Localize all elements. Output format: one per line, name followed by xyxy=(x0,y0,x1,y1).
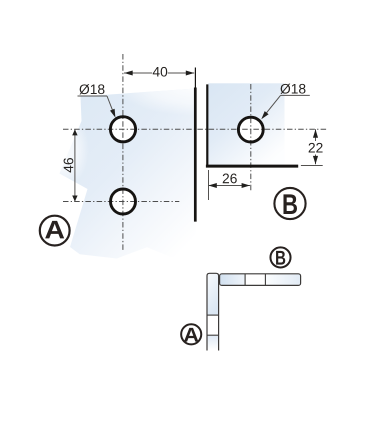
side view: clamp A vertical bar outline (open bottom) xyxy=(207,273,219,350)
dimension 26 text xyxy=(223,174,237,184)
leader arrow A1 xyxy=(110,109,115,118)
centerline horizontal through hole A2 xyxy=(63,201,179,203)
hole A1 ring xyxy=(110,117,135,142)
centerline horizontal through holes A1 and B1 xyxy=(63,128,327,130)
hole A2 ring xyxy=(111,189,136,214)
dimension 22 upper line xyxy=(315,129,317,141)
dimension 46 text (rotated) xyxy=(64,158,74,172)
hole B1 ring xyxy=(238,117,263,142)
side view: clamp B horizontal bar fill segment 1 xyxy=(220,274,245,285)
panel B clamp edge bottom xyxy=(206,165,298,168)
dimension 40 left arrow xyxy=(124,70,132,75)
dimension 40 text xyxy=(153,67,168,77)
dimension 22 down arrow xyxy=(313,156,318,164)
dimension 26 left arrow xyxy=(208,183,216,188)
side view: clamp B horizontal bar fill segment 3 xyxy=(265,274,300,285)
dimension 22 lower line xyxy=(315,155,317,165)
dimension 40 right arrow xyxy=(186,70,194,75)
glass panel A corner sheen xyxy=(60,89,196,266)
dimension 40 line xyxy=(124,72,152,74)
dimension 22 bottom extension line xyxy=(301,165,323,167)
dimension 46 line xyxy=(74,129,76,201)
label Ø18 for hole B1 xyxy=(280,84,305,94)
side view: clamp A vertical bar fill segment 3 xyxy=(208,336,218,350)
glass panel A left edge sheen xyxy=(60,89,196,266)
side view: clamp B horizontal bar divider 2 xyxy=(264,274,266,286)
centerline vertical panel B xyxy=(250,84,252,191)
leader diagonal B1 xyxy=(266,95,281,113)
glass panel B xyxy=(208,83,284,165)
dimension 26 extension line xyxy=(208,170,210,200)
leader diagonal A1 xyxy=(107,96,113,112)
dimension 46 top arrow xyxy=(72,129,77,135)
badge B (side view) xyxy=(270,247,290,267)
side view: clamp B horizontal bar divider 1 xyxy=(244,274,246,286)
leader underline B1 xyxy=(281,94,310,96)
side view: clamp B horizontal bar body xyxy=(220,274,301,286)
side view: clamp A vertical bar divider 1 xyxy=(207,314,219,316)
glass panel A xyxy=(60,89,196,266)
extension line above panel A edge for dim 40 xyxy=(194,68,196,88)
hole A2 white fill xyxy=(111,189,136,214)
dimension 22 text xyxy=(309,143,323,153)
side view: clamp B horizontal bar outline xyxy=(220,274,301,286)
side view: clamp A vertical bar fill segment 1 xyxy=(208,274,218,315)
leader arrow B1 xyxy=(261,111,268,119)
dimension 22 up arrow xyxy=(313,129,318,137)
side view: clamp A vertical bar fill segment 2 xyxy=(208,316,218,335)
panel B clamp edge left xyxy=(206,84,208,167)
hole A1 white fill xyxy=(110,117,135,142)
leader underline A1 xyxy=(78,95,108,97)
side view: clamp A vertical bar divider 2 xyxy=(207,334,219,336)
centerline vertical panel A xyxy=(122,54,124,250)
dimension 26 line xyxy=(208,185,250,187)
edge of panel A (thick vertical line) xyxy=(194,88,197,222)
badge A (side view) xyxy=(181,324,201,344)
badge B (top drawing) xyxy=(274,188,305,219)
badge A (top drawing) xyxy=(40,216,70,246)
dimension 26 right arrow xyxy=(242,183,250,188)
hole B1 white fill xyxy=(238,117,263,142)
label Ø18 for hole A1 xyxy=(79,84,104,94)
dimension 46 bottom arrow xyxy=(72,196,77,202)
